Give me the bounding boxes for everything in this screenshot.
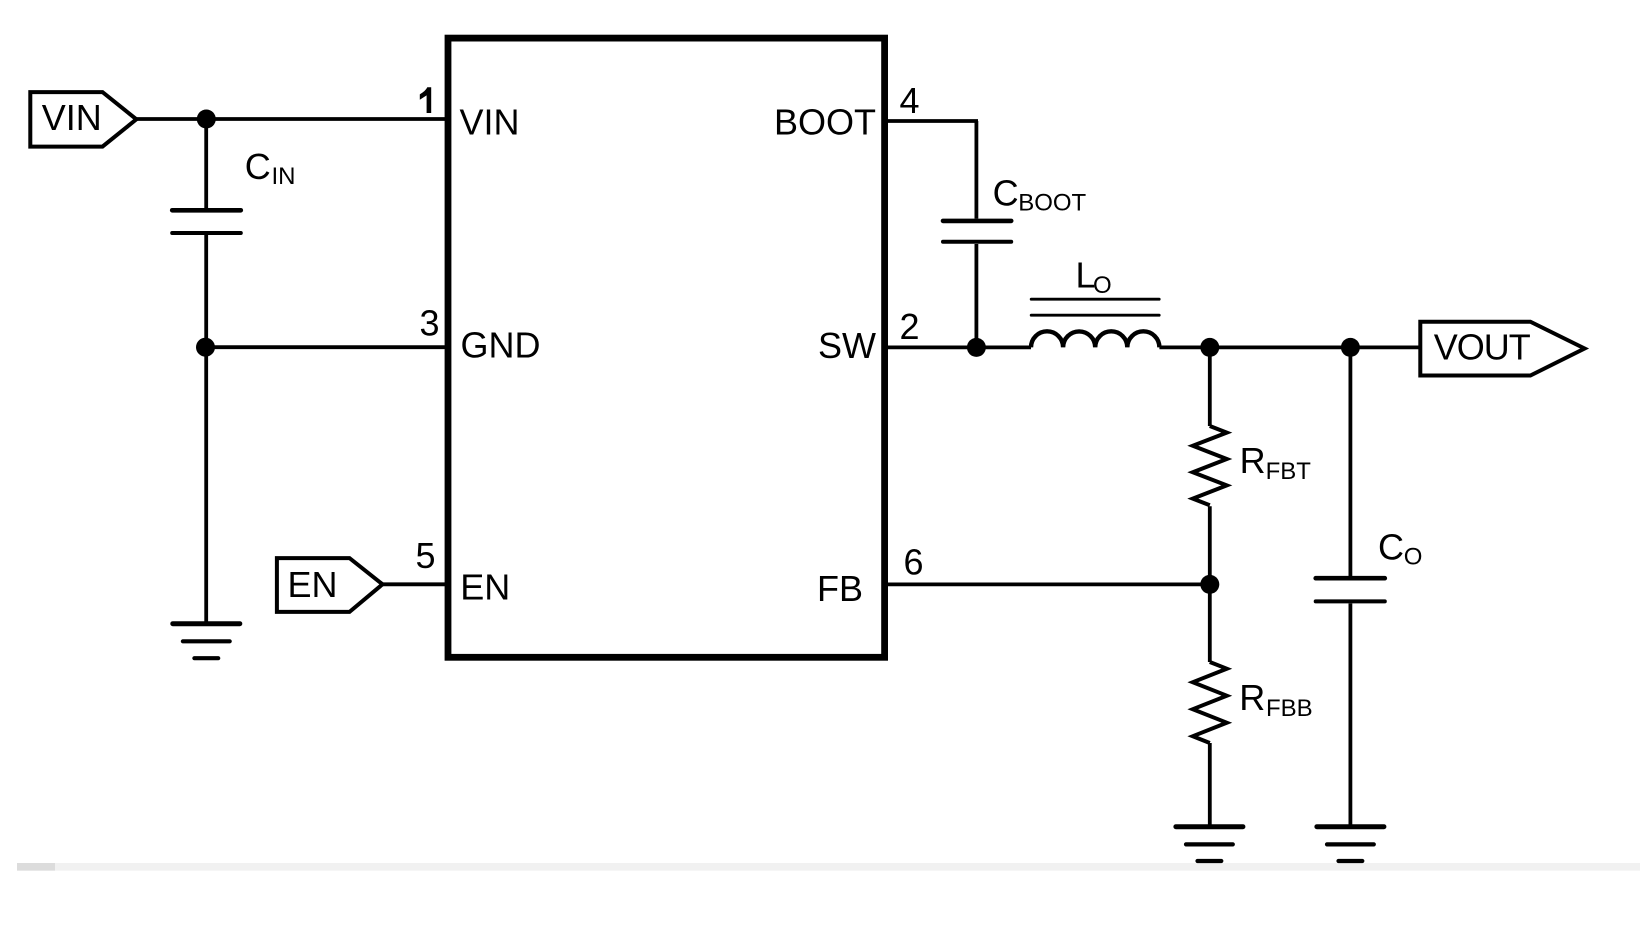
svg-text:SW: SW [818,325,876,366]
svg-text:O: O [1093,272,1112,299]
svg-text:FB: FB [817,568,863,609]
svg-text:2: 2 [900,306,920,347]
svg-text:VIN: VIN [460,101,520,142]
svg-text:VOUT: VOUT [1434,327,1531,368]
svg-text:GND: GND [461,325,541,366]
svg-text:3: 3 [419,303,439,344]
svg-text:BOOT: BOOT [1018,190,1086,217]
svg-text:C: C [245,146,271,187]
svg-text:R: R [1239,677,1265,718]
svg-text:6: 6 [904,541,924,582]
svg-text:EN: EN [460,567,510,608]
svg-text:FBT: FBT [1266,458,1312,485]
svg-text:R: R [1240,440,1266,481]
svg-text:4: 4 [900,80,920,121]
svg-text:EN: EN [288,564,338,605]
svg-text:IN: IN [272,163,296,190]
svg-text:VIN: VIN [42,97,102,138]
svg-text:BOOT: BOOT [774,102,876,143]
svg-text:O: O [1404,544,1423,571]
svg-text:C: C [1378,526,1404,567]
svg-text:5: 5 [415,535,435,576]
svg-text:FBB: FBB [1266,695,1313,722]
svg-text:C: C [993,172,1019,213]
